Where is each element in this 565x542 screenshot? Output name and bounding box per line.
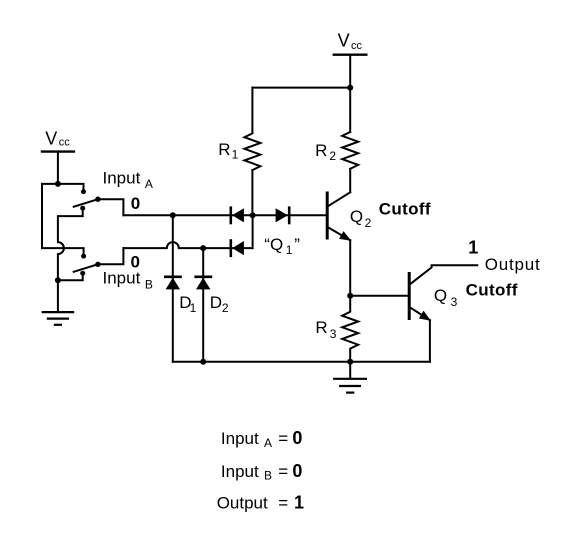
transistor Q3 bar	[408, 274, 411, 319]
transistor Q2 collector	[328, 192, 350, 206]
svg-text:cc: cc	[351, 40, 363, 52]
diode D2 (cathode bar)	[196, 275, 211, 278]
svg-text:A: A	[145, 177, 153, 191]
wire Vcc stem to node	[349, 55, 351, 88]
svg-text:2: 2	[222, 301, 229, 315]
svg-text:2: 2	[365, 216, 372, 230]
wire to switch A top contact	[42, 184, 84, 190]
switch A lower contact	[80, 206, 85, 211]
node row A / D1	[170, 212, 176, 218]
wire switch B lower contact to ground junction	[58, 275, 83, 281]
wire switch A lower contact to ground line (hops over B feed)	[58, 210, 83, 281]
wire row A	[123, 214, 327, 216]
svg-text:=: =	[278, 462, 288, 481]
transistor Q3 collector to output	[410, 265, 477, 284]
diode series "Q1" (cathode bar)	[288, 208, 291, 223]
node row A / R1	[250, 212, 256, 218]
label Q2	[350, 207, 372, 230]
node emitter/R3/base	[347, 293, 353, 299]
wire Q3 emitter down	[429, 320, 431, 362]
resistor R1	[244, 133, 260, 170]
ground (left)	[43, 312, 73, 325]
svg-text:1: 1	[286, 243, 293, 257]
wire Vcc left stem	[57, 152, 59, 184]
svg-text:Q: Q	[350, 207, 363, 226]
ground (right)	[334, 379, 366, 393]
label Input B	[103, 268, 153, 291]
svg-text:0: 0	[292, 461, 302, 481]
Vcc supply (top) bar	[334, 54, 367, 56]
wire top rail to R1	[252, 87, 350, 89]
svg-text:2: 2	[329, 149, 336, 163]
wire Q2 emitter down	[349, 240, 351, 296]
switch A pole	[95, 197, 100, 202]
wire row B with hop over D1 line	[123, 242, 252, 248]
svg-text:Input: Input	[103, 169, 141, 188]
svg-text:Cutoff: Cutoff	[466, 280, 518, 299]
svg-text:“Q: “Q	[264, 235, 283, 254]
label D1	[179, 293, 196, 315]
transistor Q2 bar	[326, 193, 329, 238]
resistor R2	[342, 132, 358, 169]
node left Vcc junction	[55, 181, 61, 187]
switch B pole	[95, 262, 100, 267]
svg-text:Input: Input	[221, 462, 259, 481]
wire to Q3 base	[350, 295, 408, 297]
svg-text:=: =	[278, 429, 288, 448]
diode input A (triangle)	[232, 208, 244, 222]
label Input A = 0 (truth row)	[221, 428, 303, 450]
svg-text:Q: Q	[434, 286, 447, 305]
svg-text:1: 1	[294, 493, 304, 513]
label Input A	[103, 169, 153, 191]
svg-text:Output: Output	[217, 494, 268, 513]
node ground line junction	[55, 277, 61, 283]
svg-text:0: 0	[131, 194, 140, 213]
label "Q1"	[264, 235, 300, 257]
svg-text:D: D	[210, 293, 222, 312]
label D2	[210, 293, 229, 315]
svg-text:cc: cc	[59, 137, 70, 149]
wire R2 to Q2 collector	[349, 169, 351, 193]
switch B lower contact	[80, 271, 85, 276]
diode D1 (triangle)	[166, 278, 180, 290]
Vcc supply (left) label	[45, 128, 70, 148]
label Output = 1 (truth row)	[217, 493, 304, 513]
diode input B (cathode bar)	[230, 241, 233, 256]
diode input B (triangle)	[232, 241, 244, 255]
transistor Q2 emitter arrow	[339, 231, 351, 241]
transistor Q2 emitter	[328, 227, 350, 240]
svg-text:1: 1	[232, 148, 239, 162]
wire bottom rail	[173, 361, 430, 363]
label Q3	[434, 286, 458, 309]
svg-text:=: =	[278, 494, 288, 513]
svg-text:0: 0	[292, 428, 302, 448]
switch B top contact	[81, 254, 86, 259]
diode input A (cathode bar)	[230, 208, 233, 223]
svg-text:B: B	[145, 277, 153, 291]
node bottom rail / D2	[200, 359, 206, 365]
svg-text:B: B	[264, 469, 272, 483]
switch B arm	[74, 264, 98, 272]
svg-text:A: A	[264, 436, 272, 450]
svg-text:0: 0	[131, 252, 140, 271]
wire down to R1	[251, 88, 253, 133]
svg-text:”: ”	[294, 235, 300, 254]
svg-text:Cutoff: Cutoff	[379, 199, 431, 218]
svg-text:R: R	[315, 318, 327, 337]
switch A top contact	[81, 189, 86, 194]
wire ground stem	[349, 362, 351, 379]
wire connector row A to row B	[252, 215, 254, 248]
svg-text:1: 1	[468, 237, 478, 257]
wire switch A pole to row A	[98, 199, 124, 215]
wire Vcc node down to R2	[349, 88, 351, 132]
node row B / D2	[200, 245, 206, 251]
diode D2 (triangle)	[196, 278, 210, 290]
wire left rail down to switch B feed	[42, 184, 84, 254]
svg-text:1: 1	[190, 301, 197, 315]
wire R1 to row A	[251, 170, 253, 215]
wire switch B pole to row B	[98, 248, 124, 264]
wire D1 vertical	[172, 215, 174, 361]
diode series "Q1" (triangle)	[276, 208, 288, 222]
wire D2 vertical	[202, 248, 204, 362]
svg-text:3: 3	[330, 327, 337, 341]
svg-text:R: R	[315, 141, 327, 160]
svg-text:3: 3	[451, 295, 458, 309]
svg-text:R: R	[218, 140, 230, 159]
node bottom rail / ground	[347, 359, 353, 365]
svg-text:V: V	[338, 30, 350, 50]
svg-text:V: V	[45, 128, 57, 148]
Vcc supply (top) label	[338, 30, 363, 51]
svg-text:Input: Input	[221, 429, 259, 448]
resistor R3	[342, 296, 358, 362]
transistor Q3 emitter	[410, 307, 430, 320]
label Input B = 0 (truth row)	[221, 461, 303, 483]
diode D1 (cathode bar)	[165, 275, 180, 278]
transistor Q3 emitter arrow	[419, 311, 431, 321]
svg-text:Output: Output	[485, 255, 541, 274]
switch A arm	[74, 199, 98, 207]
Vcc supply (left) bar	[42, 150, 74, 152]
wire junction down to ground	[57, 280, 59, 312]
node Vcc junction	[347, 85, 353, 91]
